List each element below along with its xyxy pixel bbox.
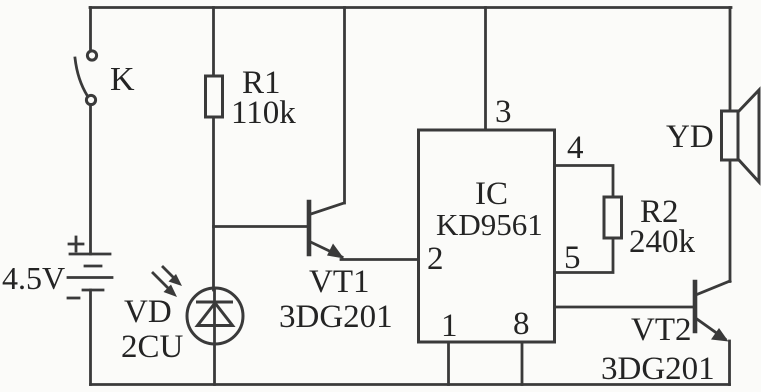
svg-text:K: K [110, 61, 135, 98]
svg-text:3DG201: 3DG201 [601, 351, 715, 387]
IC KD9561 box [419, 130, 555, 342]
svg-text:2: 2 [427, 241, 444, 277]
wire switch to battery positive plate [89, 105, 92, 255]
wire R1 bottom to photodiode and base junction [212, 117, 215, 290]
wire IC pin 1 to bottom bus [447, 342, 450, 385]
wire VT1 emitter to IC pin 2 [341, 258, 419, 261]
svg-text:1: 1 [441, 308, 458, 344]
svg-text:4.5V: 4.5V [2, 260, 65, 296]
resistor R1 [206, 76, 223, 117]
svg-text:YD: YD [666, 119, 714, 155]
wire VT1 collector to top bus [343, 8, 346, 204]
svg-text:VT1: VT1 [309, 264, 370, 300]
light arrow 1 into VD [163, 267, 182, 286]
svg-text:2CU: 2CU [121, 329, 184, 365]
svg-text:VT2: VT2 [631, 312, 692, 348]
svg-text:5: 5 [564, 240, 581, 276]
wire battery negative to bottom bus [89, 290, 92, 385]
svg-text:VD: VD [124, 294, 172, 330]
transistor VT2 [695, 281, 730, 342]
wire IC pin 3 to top bus [484, 8, 487, 131]
wire VT2 emitter to bottom bus [728, 341, 731, 385]
wire VT2 collector to speaker [729, 160, 732, 282]
resistor R2 [604, 197, 622, 238]
svg-text:8: 8 [513, 306, 530, 342]
wire R2 bottom to IC pin 5 [555, 238, 614, 273]
switch K [75, 51, 97, 105]
wire top bus down to speaker [729, 8, 732, 112]
svg-text:110k: 110k [231, 95, 296, 131]
svg-text:240k: 240k [629, 224, 696, 260]
svg-text:4: 4 [567, 130, 584, 166]
svg-text:3DG201: 3DG201 [279, 299, 393, 335]
wire VT1 base [214, 225, 310, 228]
wire IC output to VT2 base [555, 306, 696, 309]
light arrow 2 into VD [153, 273, 177, 297]
wire left branch: top bus down to switch [89, 8, 92, 52]
transistor VT1 [309, 202, 344, 259]
speaker YD [722, 90, 760, 182]
wire bottom ground bus [91, 383, 730, 386]
wire IC pin 4 to R2 top [555, 166, 614, 198]
svg-text:KD9561: KD9561 [436, 207, 543, 242]
photodiode VD [187, 288, 243, 385]
svg-text:3: 3 [495, 94, 512, 130]
wire IC pin 8 to bottom bus [521, 342, 524, 385]
wire top supply bus [90, 6, 731, 9]
battery GB 4.5V [68, 237, 112, 298]
wire top bus down to R1 [212, 8, 215, 77]
